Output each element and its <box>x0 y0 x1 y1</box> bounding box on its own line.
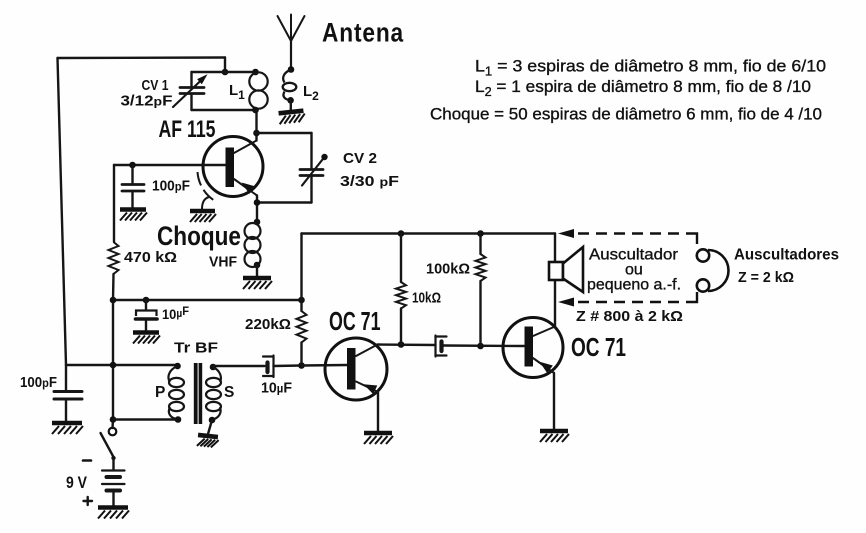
svg-text:Auscultadores: Auscultadores <box>734 247 839 264</box>
capacitor 10uF coupling <box>263 356 274 378</box>
node CV2 top branch <box>253 130 260 137</box>
shield lead AF115 <box>198 172 216 209</box>
ground 10uF <box>133 333 160 344</box>
switch <box>101 428 117 470</box>
label L2 <box>303 83 319 103</box>
label P <box>155 384 165 401</box>
wire cap to base Q2 <box>444 343 525 350</box>
ground choke <box>243 278 272 289</box>
label Auscultadores <box>734 247 839 264</box>
label 470k <box>124 250 177 266</box>
transistor U1 AF115 <box>203 137 263 197</box>
wire L1 to collector <box>255 110 257 141</box>
svg-text:10µF: 10µF <box>261 380 292 397</box>
transistor Q1 OC71 <box>325 338 387 400</box>
inductor L2 <box>283 66 297 110</box>
svg-text:L2 = 1 espira de diâmetro 8 m: L2 = 1 espira de diâmetro 8 mm, fio de 8… <box>475 77 811 99</box>
label 10uF coupling <box>261 380 292 397</box>
wire 220k to bus <box>300 234 302 301</box>
resistor 100k <box>476 234 486 347</box>
capacitor 100pF bypass <box>122 165 144 208</box>
capacitor coupling Q1-Q2 <box>436 336 447 357</box>
label legend choque <box>430 105 822 124</box>
wire battery row y365 <box>66 362 178 369</box>
label Z = 2k <box>738 269 794 286</box>
antenna <box>278 15 305 69</box>
wire primary bottom <box>110 416 182 423</box>
label L1 <box>229 82 245 102</box>
label VHF <box>209 255 237 271</box>
svg-text:CV 2: CV 2 <box>343 150 377 167</box>
label Tr BF <box>174 340 218 357</box>
inductor choke VHF <box>245 219 261 276</box>
ground shield <box>190 211 216 222</box>
wire supply row y300 <box>110 297 305 304</box>
svg-text:VHF: VHF <box>209 255 237 271</box>
ground Q2 <box>540 431 569 442</box>
wire secondary to cap <box>213 365 265 367</box>
label OC71 first <box>329 306 381 336</box>
label AF115 <box>159 116 216 143</box>
capacitor 100pF lower <box>54 365 82 421</box>
label 9V <box>66 473 88 492</box>
ground battery <box>98 508 129 519</box>
transformer primary P <box>168 363 184 420</box>
node bus 10k <box>398 230 405 237</box>
label legend L1 <box>475 57 826 79</box>
battery 9V <box>102 471 125 507</box>
label battery minus <box>83 459 91 462</box>
ground Q1 <box>364 433 393 444</box>
resistor 220k <box>297 300 307 366</box>
svg-text:OC 71: OC 71 <box>571 332 626 362</box>
label 220k <box>245 317 291 333</box>
ground L2 <box>279 111 306 125</box>
svg-text:100pF: 100pF <box>152 179 190 195</box>
svg-text:Antena: Antena <box>322 18 404 48</box>
node 100pF tap <box>129 162 136 169</box>
wire rail down <box>113 274 114 428</box>
svg-text:Choque: Choque <box>157 221 241 251</box>
inductor L1 <box>249 69 267 114</box>
ground secondary <box>197 420 219 448</box>
svg-text:100pF: 100pF <box>20 375 57 391</box>
svg-text:3/12pF: 3/12pF <box>121 94 173 110</box>
svg-text:Z = 2 kΩ: Z = 2 kΩ <box>738 269 794 286</box>
svg-text:CV 1: CV 1 <box>142 78 169 94</box>
label 100pF upper <box>152 179 190 195</box>
svg-text:Tr BF: Tr BF <box>174 340 218 357</box>
wire top-left feed <box>58 58 226 366</box>
transformer secondary S <box>206 364 221 424</box>
label Z 800 <box>576 308 683 325</box>
wire CV2 loop <box>257 133 312 203</box>
wire collector Q2 to speaker <box>554 234 556 327</box>
label 100k <box>426 262 470 278</box>
label legend L2 <box>475 77 811 99</box>
wire emitter to choke <box>254 196 261 223</box>
ground 100pF bypass <box>120 210 147 221</box>
svg-text:pequeno a.-f.: pequeno a.-f. <box>587 277 681 294</box>
svg-text:100kΩ: 100kΩ <box>426 262 470 278</box>
wire CV1-L1 loop <box>192 72 256 110</box>
speaker <box>549 247 583 292</box>
label Choque <box>157 221 241 251</box>
svg-text:OC 71: OC 71 <box>329 306 381 336</box>
node bus 100k <box>477 230 484 237</box>
dashed arrow bottom <box>558 292 697 307</box>
resistor 10k <box>396 234 406 345</box>
wire collector Q1 <box>378 341 436 348</box>
label CV1 <box>121 78 173 110</box>
transformer core <box>194 363 202 424</box>
svg-text:Z # 800 à 2 kΩ: Z # 800 à 2 kΩ <box>576 308 683 325</box>
wire emitter Q2 to ground <box>553 373 555 429</box>
headphones <box>697 249 729 291</box>
dashed arrow top <box>558 229 697 244</box>
svg-text:10kΩ: 10kΩ <box>412 291 441 307</box>
label 10uF decoupling <box>162 304 189 322</box>
node tank top <box>222 69 229 76</box>
label Auscultador ou pequeno <box>587 247 681 294</box>
capacitor CV2 3/30pF <box>300 154 328 186</box>
capacitor CV1 3/12pF <box>173 74 208 107</box>
label battery plus <box>84 497 93 505</box>
svg-text:470 kΩ: 470 kΩ <box>124 250 177 266</box>
label 100pF lower <box>20 375 57 391</box>
svg-text:3/30 pF: 3/30 pF <box>340 173 399 190</box>
svg-text:L1 = 3 espiras de diâmetro 8: L1 = 3 espiras de diâmetro 8 mm, fio de … <box>475 57 826 79</box>
label CV2 <box>340 150 399 190</box>
svg-text:Choque = 50 espiras de diâmetr: Choque = 50 espiras de diâmetro 6 mm, fi… <box>430 105 822 124</box>
wire cap to base Q1 <box>274 362 348 369</box>
svg-text:P: P <box>155 384 165 401</box>
label 10k <box>412 291 441 307</box>
capacitor 10uF decoupling <box>136 297 158 331</box>
svg-text:220kΩ: 220kΩ <box>245 317 291 333</box>
label OC71 second <box>571 332 626 362</box>
label S <box>224 384 234 401</box>
wire emitter Q1 to ground <box>377 392 379 431</box>
svg-text:9 V: 9 V <box>66 473 88 492</box>
svg-text:AF 115: AF 115 <box>159 116 216 143</box>
wire base AF115 <box>114 165 226 242</box>
svg-text:S: S <box>224 384 234 401</box>
ground 100pF lower <box>52 423 83 434</box>
wire supply bus <box>302 232 556 234</box>
label Antena <box>322 18 404 48</box>
resistor 470k <box>109 242 119 274</box>
transistor Q2 OC71 <box>503 318 563 378</box>
